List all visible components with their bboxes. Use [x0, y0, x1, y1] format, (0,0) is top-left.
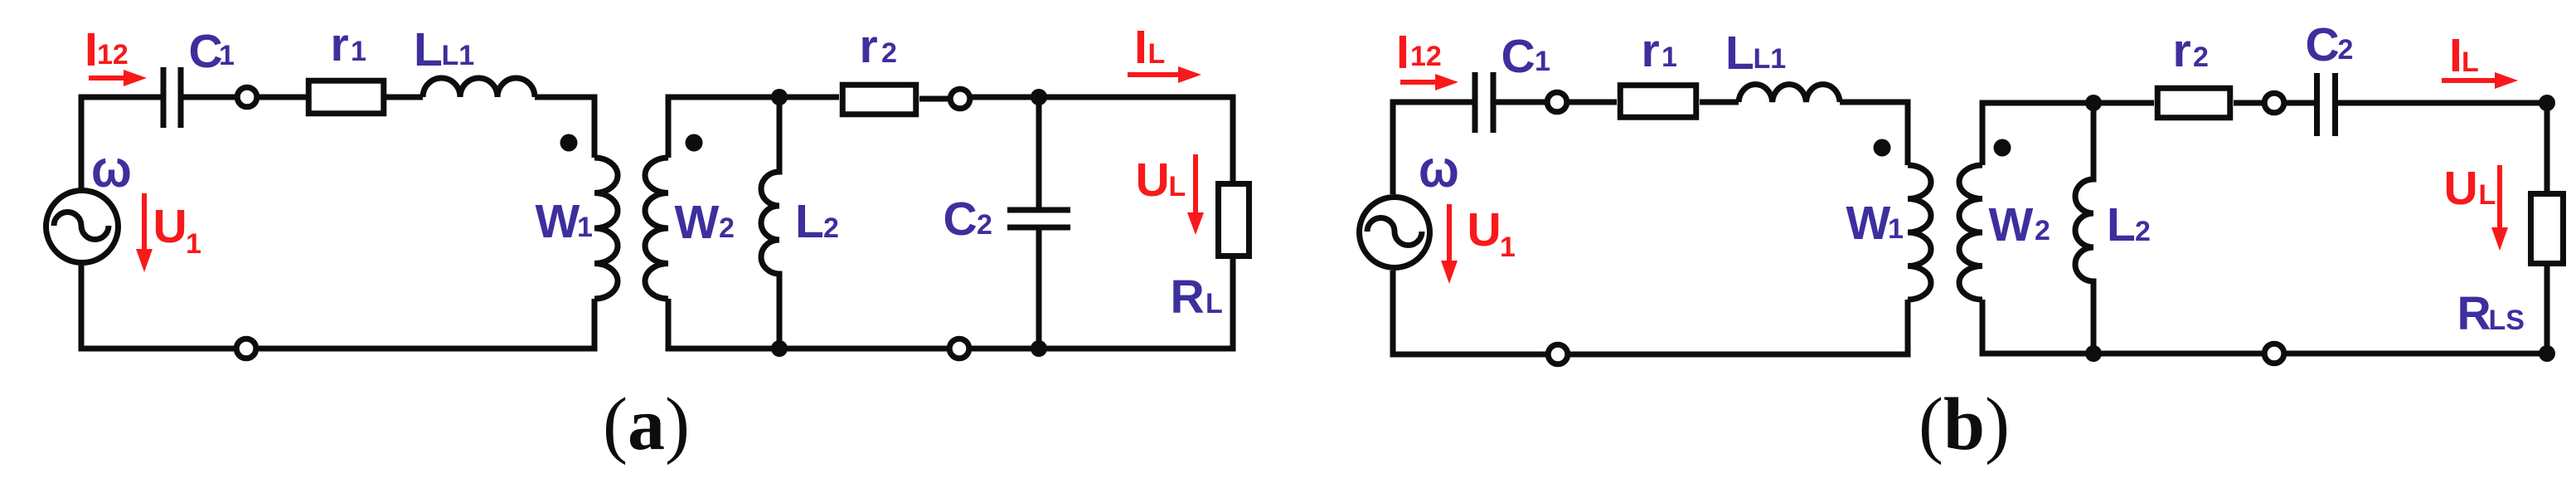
current arrow IL (b)	[2442, 78, 2496, 83]
load resistor RL box (a)	[1219, 184, 1249, 256]
svg-text:C: C	[944, 193, 978, 246]
svg-text:(a): (a)	[603, 383, 690, 466]
wire terminal to r1 (b)	[1567, 100, 1617, 105]
svg-text:C: C	[2306, 18, 2340, 71]
svg-text:I: I	[1134, 21, 1147, 74]
sine symbol inside source (b)	[1367, 218, 1422, 246]
junction dot C2 bottom (a)	[1031, 340, 1047, 357]
wire C2 to load corner (b)	[2335, 103, 2547, 193]
inductor LL1 arcs (a)	[423, 78, 535, 97]
svg-text:r: r	[2173, 24, 2191, 77]
svg-text:r: r	[860, 20, 878, 73]
svg-text:W: W	[1846, 197, 1891, 250]
terminal circle bottom-left (a)	[236, 339, 256, 358]
svg-text:U: U	[2444, 162, 2478, 215]
svg-text:L: L	[2479, 179, 2496, 211]
junction dot load bottom (b)	[2539, 345, 2555, 362]
wire C1 to terminal	[181, 95, 237, 100]
wire terminal to C2 (b)	[2284, 100, 2316, 106]
transformer coil W2 (b)	[1959, 165, 1982, 300]
svg-text:U: U	[1136, 154, 1170, 207]
svg-text:r: r	[331, 18, 349, 71]
svg-text:(b): (b)	[1919, 383, 2010, 466]
wire LL1 to W1 corner (b)	[1840, 102, 1908, 165]
junction dot L2 bottom (a)	[771, 340, 788, 357]
svg-text:W: W	[536, 195, 580, 248]
svg-text:L1: L1	[1754, 43, 1787, 75]
svg-text:L: L	[2462, 46, 2479, 78]
svg-text:1: 1	[1888, 213, 1904, 245]
wire W2 bottom	[668, 299, 949, 349]
svg-text:2: 2	[719, 212, 735, 244]
wire bottom to W1 (b)	[1568, 300, 1908, 354]
capacitor C2 plate right (b)	[2332, 73, 2338, 136]
load resistor RLS box (b)	[2531, 194, 2564, 264]
resistor r1 box (b)	[1620, 85, 1696, 118]
current arrow I12 (b)	[1400, 80, 1438, 85]
wire bottom to W1	[256, 299, 594, 349]
svg-text:I: I	[2449, 29, 2462, 82]
svg-text:ω: ω	[1419, 139, 1459, 198]
polarity dot W1 (b)	[1874, 139, 1891, 157]
wire terminal to r1	[257, 95, 306, 100]
inductor LL1 arcs (b)	[1739, 85, 1840, 102]
svg-text:I: I	[85, 23, 98, 76]
junction dot L2 top (b)	[2085, 95, 2102, 111]
svg-text:R: R	[2457, 287, 2491, 340]
capacitor C2 plates (a)	[1007, 210, 1070, 227]
sine symbol inside source (a)	[54, 212, 109, 240]
svg-text:L1: L1	[442, 40, 475, 71]
wire C1 to terminal (b)	[1493, 100, 1547, 105]
svg-text:C: C	[189, 25, 223, 78]
terminal circle after C1 (a)	[237, 87, 257, 107]
wire bottom right secondary (a)	[969, 259, 1233, 349]
svg-text:L: L	[795, 195, 824, 248]
terminal circle bottom-left (b)	[1548, 344, 1568, 364]
junction dot L2 bottom (b)	[2085, 345, 2102, 362]
capacitor C1 plate right (b)	[1491, 72, 1497, 133]
current arrow IL (a)	[1128, 72, 1179, 77]
svg-text:2: 2	[2338, 34, 2354, 66]
AC source circle (b)	[1360, 198, 1430, 268]
svg-text:L: L	[1206, 288, 1223, 319]
voltage arrow UL (a)	[1193, 154, 1198, 214]
wire top-left from C1 to source	[81, 97, 163, 189]
inductor L2 (a)	[761, 97, 779, 349]
terminal circle bottom secondary (b)	[2264, 344, 2284, 363]
svg-text:U: U	[1467, 203, 1501, 256]
svg-text:r: r	[1642, 24, 1660, 77]
svg-text:ω: ω	[91, 139, 132, 198]
svg-text:2: 2	[2193, 41, 2209, 73]
svg-text:C: C	[1501, 30, 1535, 83]
svg-text:1: 1	[1662, 41, 1677, 73]
svg-text:12: 12	[97, 39, 129, 71]
polarity dot W2 (a)	[686, 134, 703, 152]
svg-text:1: 1	[577, 212, 593, 243]
resistor r2 box (b)	[2157, 88, 2230, 118]
wire r2 to terminal	[919, 96, 950, 102]
wire r2 to terminal (b)	[2234, 100, 2264, 106]
svg-text:12: 12	[1410, 41, 1442, 72]
label omega (a)	[91, 139, 132, 198]
wire LL1 to W1 corner	[535, 97, 594, 158]
svg-text:1: 1	[351, 36, 366, 67]
svg-text:1: 1	[1535, 46, 1550, 77]
svg-text:2: 2	[2135, 216, 2151, 247]
junction dot load top (b)	[2539, 95, 2555, 111]
svg-text:1: 1	[186, 228, 201, 260]
polarity dot W1 (a)	[560, 134, 578, 152]
svg-text:2: 2	[881, 37, 897, 69]
wire W2 top to r2	[668, 97, 839, 158]
terminal circle bottom secondary (a)	[949, 339, 969, 358]
resistor r1 box (a)	[308, 80, 384, 114]
wire terminal to RL corner	[970, 97, 1233, 181]
capacitor C2 plate left (b)	[2314, 73, 2320, 136]
svg-text:L: L	[1148, 38, 1166, 70]
capacitor C1 plate left (b)	[1472, 72, 1478, 133]
terminal circle after C1 (b)	[1547, 92, 1567, 112]
terminal circle after r2 (b)	[2264, 93, 2284, 113]
svg-text:LS: LS	[2489, 305, 2525, 336]
capacitor C1 plate right (a)	[178, 67, 184, 128]
svg-text:L: L	[1725, 27, 1754, 80]
junction dot L2 top (a)	[771, 89, 788, 105]
polarity dot W2 (b)	[1994, 139, 2011, 157]
capacitor C2 branch wire (a)	[1036, 97, 1042, 349]
voltage arrow U1 (b)	[1447, 204, 1452, 263]
terminal circle after r2 (a)	[950, 89, 970, 109]
svg-text:L: L	[2107, 198, 2136, 251]
label omega (b)	[1419, 139, 1459, 198]
wire W2 bottom (b)	[1982, 300, 2264, 354]
voltage arrow UL (b)	[2497, 165, 2502, 230]
wire source to bottom-left corner	[81, 266, 236, 349]
voltage arrow U1 (a)	[142, 193, 147, 251]
wire r1 to LL1	[386, 95, 423, 100]
svg-text:W: W	[675, 196, 720, 249]
capacitor C1 plate left (a)	[161, 67, 167, 128]
junction dot C2 top (a)	[1031, 89, 1047, 105]
svg-text:2: 2	[823, 212, 839, 244]
svg-text:1: 1	[1500, 232, 1516, 263]
inductor L2 (b)	[2075, 103, 2093, 354]
svg-text:I: I	[1396, 26, 1409, 79]
wire r1 to LL1 (b)	[1700, 100, 1739, 105]
wire source to bottom-left corner (b)	[1393, 271, 1548, 354]
svg-text:U: U	[153, 200, 187, 253]
resistor r2 box (a)	[842, 85, 916, 115]
svg-text:L: L	[1169, 171, 1186, 202]
svg-text:1: 1	[219, 40, 235, 71]
current arrow I12 (a)	[89, 76, 126, 80]
wire top-left from C1 to source (b)	[1393, 102, 1475, 194]
transformer coil W2 (a)	[645, 158, 668, 299]
transformer coil W1 (a)	[594, 158, 618, 299]
svg-text:R: R	[1171, 271, 1205, 324]
transformer coil W1 (b)	[1908, 165, 1931, 300]
svg-text:2: 2	[977, 209, 992, 241]
wire W2 top to r2 (b)	[1982, 103, 2154, 165]
AC source circle (a)	[46, 191, 119, 263]
svg-text:2: 2	[2035, 215, 2050, 246]
svg-text:W: W	[1989, 198, 2034, 251]
svg-text:L: L	[414, 23, 443, 76]
wire bottom right secondary (b)	[2284, 266, 2547, 354]
